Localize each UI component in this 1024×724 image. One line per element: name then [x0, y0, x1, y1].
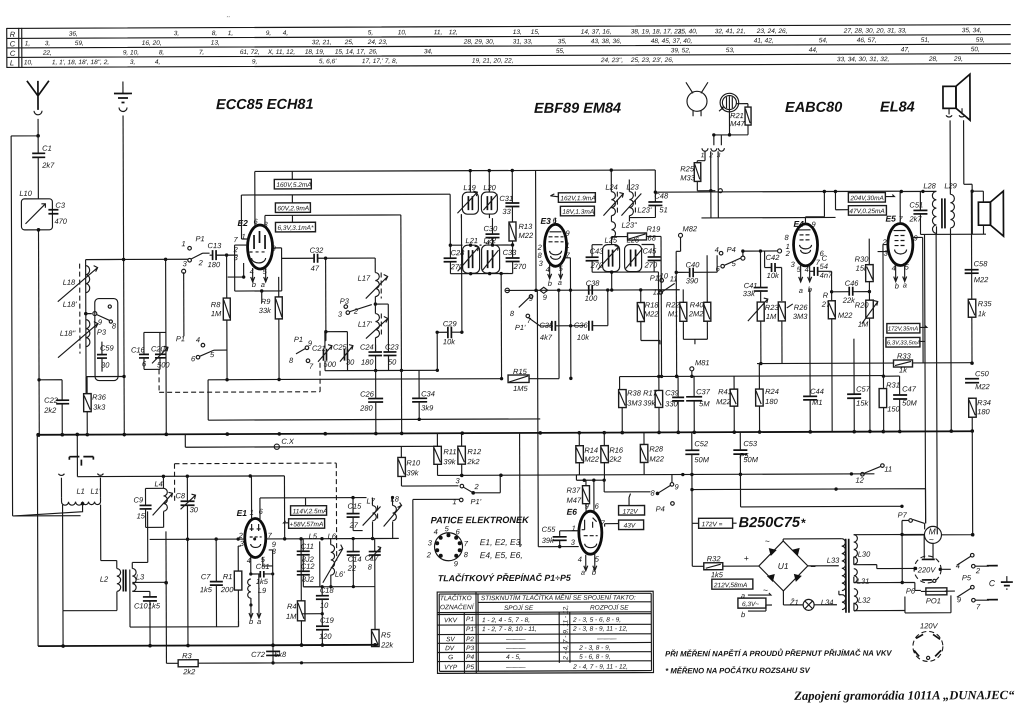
svg-text:470: 470 [54, 217, 67, 226]
svg-text:204V,30mA: 204V,30mA [849, 195, 884, 202]
svg-text:5k8: 5k8 [274, 650, 287, 659]
svg-text:3,: 3, [45, 40, 51, 47]
svg-text:2k7: 2k7 [41, 161, 55, 170]
svg-text:L1': L1' [90, 487, 100, 496]
box 172V= [699, 518, 733, 528]
table header lines [437, 602, 651, 615]
svg-text:100: 100 [585, 294, 598, 303]
svg-text:12,: 12, [449, 29, 458, 36]
svg-text:3k9: 3k9 [421, 403, 434, 412]
transformer bottom frame [920, 191, 986, 234]
speaker (right) [978, 202, 990, 225]
wire grid line y258 [86, 259, 189, 376]
svg-text:C39: C39 [665, 388, 680, 397]
svg-text:C53: C53 [743, 439, 758, 448]
resistor R25 M33 [694, 163, 701, 182]
box 18V,1.3mA [560, 206, 594, 216]
svg-text:35, 34,: 35, 34, [962, 27, 982, 34]
svg-text:L31: L31 [857, 577, 870, 586]
svg-text:212V,58mA: 212V,58mA [713, 582, 748, 589]
svg-text:C13: C13 [208, 241, 223, 250]
box 212V,58mA [712, 579, 753, 589]
svg-text:Zapojení gramorádia 1011A „DUN: Zapojení gramorádia 1011A „DUNAJEC“ [793, 688, 1015, 703]
E4 internals [798, 230, 810, 240]
svg-text:35,: 35, [558, 38, 567, 45]
svg-text:220V: 220V [917, 565, 937, 574]
svg-text:4,: 4, [155, 59, 161, 66]
svg-text:C52: C52 [694, 439, 709, 448]
svg-text:24, 23,: 24, 23, [367, 39, 388, 46]
AVC line y364 [757, 362, 971, 365]
svg-text:R16: R16 [609, 446, 624, 455]
svg-text:46, 57,: 46, 57, [857, 37, 877, 44]
svg-text:C31: C31 [499, 194, 513, 203]
anode supply corner [901, 190, 936, 192]
svg-text:R13: R13 [518, 222, 533, 231]
svg-text:C45: C45 [643, 246, 658, 255]
svg-text:4: 4 [715, 245, 719, 254]
svg-text:61, 72,: 61, 72, [240, 49, 260, 56]
svg-text:59,: 59, [75, 40, 84, 47]
wire pin2 to tube [216, 255, 244, 277]
svg-text:1M: 1M [286, 612, 297, 621]
svg-text:2k2: 2k2 [466, 457, 480, 466]
svg-text:30: 30 [190, 505, 199, 514]
svg-text:50: 50 [388, 357, 397, 366]
svg-text:2 - 4, 7 - 9, 11 - 12,: 2 - 4, 7 - 9, 11 - 12, [572, 664, 628, 671]
svg-text:L20: L20 [483, 183, 496, 192]
svg-text:C7: C7 [201, 572, 211, 581]
resistor R14 M22 [576, 446, 584, 463]
svg-text:39k: 39k [443, 457, 456, 466]
svg-text:15k: 15k [856, 399, 869, 408]
ruler left border double line [7, 28, 22, 68]
wire to P1 lower switch [183, 272, 185, 336]
svg-text:C32: C32 [310, 246, 325, 255]
svg-text:180: 180 [977, 407, 990, 416]
svg-text:EBF89 EM84: EBF89 EM84 [534, 101, 621, 117]
speaker (top right) [943, 86, 956, 108]
grid stopper wires [660, 236, 663, 376]
svg-text:E3: E3 [540, 216, 551, 226]
svg-text:L23: L23 [626, 183, 639, 192]
svg-text:OZNAČENÍ: OZNAČENÍ [440, 602, 475, 611]
svg-text:2: 2 [353, 307, 359, 316]
svg-text:3,: 3, [174, 30, 180, 37]
push button table frame [437, 591, 653, 673]
svg-text:———: ——— [505, 664, 526, 671]
svg-text:R41: R41 [718, 387, 732, 396]
svg-text:7,: 7, [199, 49, 205, 56]
svg-text:M1: M1 [812, 398, 822, 407]
svg-text:C: C [10, 49, 16, 58]
svg-text:C33: C33 [503, 248, 518, 257]
svg-text:P2: P2 [466, 636, 474, 643]
svg-text:R1: R1 [223, 572, 233, 581]
svg-text:1: 1 [566, 241, 570, 250]
svg-text:6,3V,33,5mA: 6,3V,33,5mA [887, 340, 921, 346]
svg-text:L30: L30 [858, 550, 871, 559]
E4 anode leads [805, 191, 824, 216]
svg-text:SPOJÍ SE: SPOJÍ SE [504, 603, 534, 612]
svg-text:34,: 34, [424, 48, 433, 55]
svg-text:2M2: 2M2 [688, 309, 704, 318]
svg-text:+58V,57mA: +58V,57mA [290, 521, 324, 528]
svg-text:11: 11 [670, 274, 678, 283]
svg-text:15,: 15, [531, 29, 540, 36]
svg-text:9, 10,: 9, 10, [123, 49, 139, 56]
resistor R28 M22 [640, 444, 648, 462]
svg-text:29,: 29, [953, 56, 963, 63]
220V socket [914, 556, 941, 583]
E1 internals [250, 524, 262, 537]
svg-text:P5: P5 [962, 573, 972, 582]
svg-text:23, 24, 26,: 23, 24, 26, [756, 28, 788, 35]
svg-text:44,: 44, [809, 47, 818, 54]
secondary wires [854, 534, 925, 610]
svg-text:51: 51 [659, 205, 667, 214]
svg-text:33k: 33k [259, 306, 272, 315]
svg-text:L17: L17 [358, 274, 371, 283]
row C1 numbers [25, 37, 985, 48]
svg-text:B250C75: B250C75 [739, 515, 801, 531]
svg-text:15: 15 [137, 511, 146, 520]
svg-text:b: b [895, 282, 899, 291]
svg-text:1k5: 1k5 [256, 577, 269, 586]
svg-text:L25: L25 [605, 236, 618, 245]
svg-text:10k: 10k [577, 333, 590, 342]
svg-text:———: ——— [505, 636, 526, 643]
svg-text:M47: M47 [567, 496, 582, 505]
svg-text:R33: R33 [897, 351, 912, 360]
svg-text:4: 4 [956, 561, 960, 570]
svg-text:VYP: VYP [444, 664, 458, 671]
box 60V,2.9mA [275, 203, 310, 213]
svg-text:L18'': L18'' [60, 329, 76, 338]
svg-text:12: 12 [855, 476, 864, 485]
svg-text:16, 20,: 16, 20, [142, 40, 162, 47]
svg-text:..: .. [227, 12, 231, 19]
svg-text:R36: R36 [92, 393, 107, 402]
svg-text:180: 180 [765, 397, 778, 406]
boxes 204V,30mA / 47V,0.25mA [848, 193, 885, 203]
svg-text:C30: C30 [483, 224, 498, 233]
AVC line left [208, 378, 540, 420]
svg-text:4: 4 [805, 265, 809, 274]
svg-text:VKV: VKV [444, 617, 458, 624]
svg-text:C72: C72 [251, 650, 266, 659]
svg-text:2: 2 [975, 566, 981, 575]
resistor R41 M22 [730, 389, 738, 406]
svg-text:C42: C42 [766, 253, 781, 262]
svg-text:R26: R26 [794, 303, 809, 312]
svg-text:280: 280 [359, 404, 373, 413]
rectifier bridge U1 [759, 541, 808, 591]
svg-text:36,: 36, [69, 31, 78, 38]
svg-text:C3: C3 [55, 201, 65, 210]
svg-text:14, 37, 16,: 14, 37, 16, [581, 29, 612, 36]
svg-text:~: ~ [763, 585, 768, 595]
svg-text:15, 14, 17,: 15, 14, 17, [335, 49, 366, 56]
heater line y214 [265, 214, 401, 217]
svg-text:26,: 26, [368, 49, 378, 56]
table row lines [437, 624, 651, 661]
resistor R35 1k [968, 299, 976, 317]
svg-text:1k5: 1k5 [711, 570, 724, 579]
svg-text:50M: 50M [902, 398, 917, 407]
svg-text:M22: M22 [518, 231, 533, 240]
svg-text:R20: R20 [855, 301, 870, 310]
svg-text:48, 45, 37, 40,: 48, 45, 37, 40, [651, 38, 693, 45]
row R numbers [69, 27, 982, 38]
cluster bottom rail [325, 369, 437, 371]
svg-text:L18: L18 [63, 278, 76, 287]
svg-text:R28: R28 [649, 444, 664, 453]
svg-text:L17': L17' [358, 320, 373, 329]
svg-text:2 - 4, 7 - 9, 11 - 12,: 2 - 4, 7 - 9, 11 - 12, [562, 605, 569, 661]
svg-text:b: b [741, 610, 745, 619]
svg-text:C16: C16 [131, 345, 146, 354]
svg-text:L18': L18' [63, 300, 78, 309]
svg-text:5M: 5M [699, 399, 710, 408]
svg-text:47V,0.25mA: 47V,0.25mA [849, 208, 884, 215]
svg-text:TLAČÍTKOVÝ PŘEPÍNAČ P1÷P5: TLAČÍTKOVÝ PŘEPÍNAČ P1÷P5 [438, 572, 571, 584]
svg-text:R4: R4 [287, 602, 297, 611]
svg-text:25, 23, 23', 26,: 25, 23, 23', 26, [630, 57, 674, 64]
resistor R12 2k2 [458, 446, 466, 464]
box 172V [619, 505, 645, 515]
svg-text:172V: 172V [623, 509, 639, 516]
resistor R24 180 [756, 389, 764, 406]
svg-text:330: 330 [665, 399, 678, 408]
boxes 114V,2.5mA / +58V,57mA [291, 506, 327, 516]
svg-text:SV: SV [446, 636, 455, 643]
svg-text:13,: 13, [513, 29, 522, 36]
svg-text:60V,2.9mA: 60V,2.9mA [277, 205, 309, 212]
svg-text:P1: P1 [294, 335, 303, 344]
svg-text:C.X: C.X [281, 437, 295, 446]
boxes 172V,35mA / 6,3V,33,5mA [887, 323, 920, 333]
svg-text:32, 21,: 32, 21, [312, 39, 332, 46]
svg-text:R12: R12 [467, 447, 482, 456]
svg-text:1M: 1M [211, 309, 222, 318]
svg-text:11: 11 [884, 465, 892, 474]
svg-text:E6: E6 [567, 507, 578, 517]
L1 output leads [63, 505, 117, 611]
svg-text:L23': L23' [637, 205, 652, 214]
svg-text:C: C [989, 578, 996, 588]
svg-text:270: 270 [513, 262, 527, 271]
resistor R17 39k [655, 390, 663, 407]
svg-text:200: 200 [220, 585, 234, 594]
shield box around C59 [95, 299, 118, 381]
svg-text:a: a [741, 591, 745, 600]
long vertical to bus [400, 215, 403, 433]
svg-text:3: 3 [717, 152, 721, 159]
svg-text:P5: P5 [466, 664, 474, 671]
svg-text:114V,2.5mA: 114V,2.5mA [293, 508, 328, 515]
svg-text:C25: C25 [333, 343, 348, 352]
svg-text:P1: P1 [196, 234, 205, 243]
svg-text:35, 40,: 35, 40, [678, 28, 698, 35]
svg-text:3k3: 3k3 [93, 403, 106, 412]
bottom link rail [905, 595, 951, 613]
AVC right line corner [620, 376, 884, 390]
resistor R34 180 [969, 398, 977, 417]
row L numbers [24, 56, 963, 67]
capacitor C1 2k7 [32, 153, 45, 157]
crystal pickup [69, 457, 93, 466]
svg-text:R17: R17 [643, 388, 658, 397]
svg-text:2k2: 2k2 [182, 667, 196, 676]
svg-text:M1: M1 [668, 309, 678, 318]
svg-text:150: 150 [887, 405, 900, 414]
svg-text:a: a [581, 568, 585, 577]
tube socket diagram [434, 533, 462, 561]
gang dashed link [159, 363, 320, 393]
svg-text:P4: P4 [727, 245, 736, 254]
svg-text:P3: P3 [97, 328, 107, 337]
resistor R11 39k [434, 446, 442, 464]
svg-text:R3: R3 [182, 651, 192, 660]
svg-text:2 - 3, 8 - 9, 11 - 12,: 2 - 3, 8 - 9, 11 - 12, [572, 626, 628, 633]
svg-text:8,: 8, [159, 49, 165, 56]
svg-text:53,: 53, [726, 47, 735, 54]
svg-text:C50: C50 [975, 369, 990, 378]
svg-text:2 - 3, 5 - 6, 8 - 9,: 2 - 3, 5 - 6, 8 - 9, [572, 617, 621, 624]
svg-text:22k: 22k [380, 640, 394, 649]
svg-text:L28: L28 [923, 181, 936, 190]
svg-text:13,: 13, [211, 40, 220, 47]
svg-text:1 - 2, 4 - 5, 7 - 8,: 1 - 2, 4 - 5, 7 - 8, [482, 617, 530, 624]
svg-text:8,: 8, [212, 30, 218, 37]
svg-text:M22: M22 [716, 397, 731, 406]
svg-text:G: G [448, 654, 453, 661]
svg-text:28, 29, 30,: 28, 29, 30, [463, 39, 495, 46]
svg-text:6,3V,3.1mA*: 6,3V,3.1mA* [277, 225, 314, 232]
svg-text:4: 4 [196, 335, 200, 344]
svg-text:M22: M22 [974, 275, 989, 284]
svg-text:ROZPOJÍ SE: ROZPOJÍ SE [590, 603, 629, 612]
svg-text:L4: L4 [154, 479, 162, 488]
svg-text:L33: L33 [827, 556, 840, 565]
svg-text:E1: E1 [237, 508, 248, 518]
svg-text:27, 28, 30, 20, 31, 33,: 27, 28, 30, 20, 31, 33, [843, 27, 907, 34]
main ground bus [37, 431, 972, 435]
svg-text:32, 41, 21,: 32, 41, 21, [715, 28, 746, 35]
E3 internals [549, 232, 564, 242]
svg-text:R18: R18 [645, 300, 660, 309]
svg-text:L26: L26 [627, 236, 640, 245]
L3 tap [132, 581, 166, 583]
oscillator dashed shield [174, 463, 336, 561]
svg-text:a: a [261, 280, 265, 289]
svg-text:1,: 1, [25, 40, 31, 47]
svg-text:270: 270 [644, 260, 658, 269]
svg-text:L3: L3 [136, 572, 145, 581]
svg-text:L32: L32 [858, 596, 871, 605]
svg-text:4,: 4, [283, 30, 289, 37]
svg-text:b: b [548, 279, 552, 288]
svg-text:6,3V~: 6,3V~ [742, 601, 759, 608]
svg-text:1: 1 [453, 497, 457, 506]
svg-text:R8: R8 [211, 300, 221, 309]
box 43V [619, 520, 644, 530]
svg-text:9,: 9, [266, 30, 272, 37]
svg-text:18, 19,: 18, 19, [305, 49, 325, 56]
svg-text:L10: L10 [19, 189, 32, 198]
line y475 power [438, 474, 875, 476]
svg-text:51,: 51, [921, 37, 930, 44]
svg-text:2k2: 2k2 [43, 406, 57, 415]
svg-text:PŘI MĚŘENÍ NAPĚTÍ A PROUDŮ PŘ: PŘI MĚŘENÍ NAPĚTÍ A PROUDŮ PŘEPNUT PŘIJÍ… [665, 648, 892, 659]
resistor R21 M47 [745, 107, 751, 125]
mains prong right top [975, 565, 989, 567]
svg-text:4 - 5,: 4 - 5, [506, 654, 521, 661]
svg-text:P3: P3 [466, 645, 474, 652]
svg-text:22: 22 [347, 564, 357, 573]
svg-text:33: 33 [502, 207, 511, 216]
E6 internals [582, 518, 598, 536]
svg-text:R: R [10, 30, 16, 39]
svg-text:38, 19, 18, 17, 22,: 38, 19, 18, 17, 22, [631, 28, 684, 35]
E5 cathode verticals [882, 339, 884, 377]
motor M [924, 526, 941, 543]
svg-text:28,: 28, [928, 56, 938, 63]
ruler frame lines [7, 25, 1011, 68]
svg-text:33, 34, 30, 31, 32,: 33, 34, 30, 31, 32, [837, 56, 890, 63]
resistor R10 39k [398, 457, 406, 476]
svg-text:10,: 10, [24, 59, 33, 66]
svg-text:C36: C36 [574, 321, 589, 330]
svg-text:1k5: 1k5 [200, 585, 213, 594]
svg-text:24, 23'',: 24, 23'', [600, 57, 624, 64]
svg-text:R: R [823, 291, 829, 300]
screen line y194 [241, 193, 450, 196]
wire CX line y446 [185, 433, 437, 447]
svg-text:43, 38, 36,: 43, 38, 36, [591, 38, 622, 45]
antenna [27, 81, 49, 110]
svg-text:172V =: 172V = [702, 521, 723, 528]
svg-text:R30: R30 [855, 255, 870, 264]
fuse PO1 [926, 588, 947, 595]
svg-text:M47: M47 [730, 119, 745, 128]
svg-text:L29: L29 [944, 181, 957, 190]
svg-text:M33: M33 [680, 173, 695, 182]
svg-text:C37: C37 [696, 387, 711, 396]
svg-text:4k7: 4k7 [540, 333, 553, 342]
box 6.3V,3.1mA* [275, 222, 315, 232]
svg-text:C9: C9 [134, 495, 144, 504]
svg-text:E4, E5, E6,: E4, E5, E6, [480, 550, 523, 560]
svg-text:39, 52,: 39, 52, [671, 47, 691, 54]
antenna branch to bus [60, 433, 64, 437]
E2 pin leads [241, 171, 265, 239]
wire left rail bottoms [86, 376, 124, 394]
svg-text:3M3: 3M3 [627, 398, 642, 407]
svg-text:2: 2 [473, 482, 479, 491]
svg-text:L5: L5 [309, 532, 318, 541]
phono frame lines [130, 569, 239, 627]
node L18 tap [84, 312, 88, 316]
winding L33 [842, 539, 846, 591]
svg-text:22,: 22, [42, 50, 52, 57]
box 162V,1.9mA [558, 193, 595, 203]
svg-text:2: 2 [785, 249, 791, 258]
svg-text:M22: M22 [838, 311, 853, 320]
svg-text:2k2: 2k2 [608, 455, 622, 464]
svg-text:50M: 50M [694, 455, 709, 464]
